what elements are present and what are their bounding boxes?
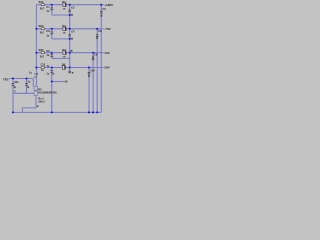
x mark C9 [92,56,94,58]
x mark C10 [88,75,90,77]
resistor R2A [41,28,44,30]
diode D3 [63,51,66,54]
wire ground column x52 row4 to bus [51,68,53,113]
svg-text:1N: 1N [63,56,66,58]
svg-text:15V: 15V [104,51,109,55]
capacitor C7 row1 x52 [50,8,53,11]
wire input cap leg x26.5 [26,79,28,94]
node row5 [51,81,53,83]
wire ground bus bottom [13,111,101,113]
wire transformer return jog [22,95,36,112]
capacitor C5 ladder row1 [68,10,71,13]
x mark transformer return node [37,106,39,108]
wire input rail y93.3 [13,92,34,94]
svg-text:1u: 1u [46,65,49,68]
node row2 ladder [69,28,71,30]
wire transformer primary row [9,79,33,87]
x mark rail1 end [71,14,73,16]
node bus left [12,111,14,113]
wire right line 4 from 20V node [88,68,90,113]
node bus c10 [88,111,90,113]
svg-text:1u: 1u [46,54,49,57]
capacitor CIN1 x13 [12,83,15,86]
svg-text:R1A: R1A [39,1,44,4]
svg-text:C7: C7 [46,6,50,9]
svg-text:x: x [14,90,16,93]
node row4 ladder [69,67,71,69]
node bus c9 [92,111,94,113]
node row4 bus [35,67,37,69]
node row4 cap [51,67,53,69]
node tr cap1 [12,78,14,80]
svg-text:C13: C13 [41,64,46,67]
wire left input bus vertical [35,5,37,87]
transformer TR1 winding boxes [34,86,38,95]
node tr cap2 [26,78,28,80]
svg-text:1u: 1u [46,10,49,13]
capacitor C4 ladder row2 [68,34,71,36]
wire cap leg row3 x52 [51,53,53,59]
node bus c8 [96,111,98,113]
node row2 bus [35,28,37,30]
capacitor C9 row3 x52 [50,54,53,57]
node row3 ladder [69,52,71,54]
wire row2 horizontal rail [36,28,103,30]
capacitor C12 row4 x52 [50,70,53,73]
svg-text:1u: 1u [41,69,44,72]
x mark rail3 end [71,50,73,52]
wire input cap leg x13 [12,79,14,94]
wire right line 2 from -75V node [96,29,98,113]
node row3 bus [35,52,37,54]
x mark row5 stub end [65,81,67,83]
node row3 right [92,52,94,54]
svg-text:1N: 1N [63,8,66,10]
capacitor CIN2 x26.5 [25,83,28,86]
svg-text:C6: C6 [102,8,106,11]
x mark ladder row4 [72,72,74,74]
svg-text:R5: R5 [38,88,42,91]
svg-text:C10: C10 [90,69,95,72]
diode D1 [63,3,66,6]
wire row1 horizontal rail [36,4,103,6]
svg-text:R2A: R2A [39,25,44,28]
wire row3 horizontal rail [36,52,103,54]
capacitor C8b on -75V line [96,34,99,36]
series component C13 row4 [41,67,44,69]
node row2 right [96,28,98,30]
node rail1 ladder [69,14,71,16]
node bus ground [51,111,53,113]
diode D4 [62,66,65,69]
capacitor C10 on 20V line [88,72,91,74]
wire rail3 bottom of caps row3 [52,57,70,59]
svg-text:BA158/MURS160: BA158/MURS160 [38,91,57,94]
junction dots [12,4,102,114]
svg-text:C14: C14 [34,73,39,76]
wire row4 horizontal rail [36,67,103,69]
node row1 right [100,4,102,6]
x mark rail2 end [71,38,73,40]
capacitor C8 row2 x52 [50,32,53,35]
resistor R3A [41,52,44,54]
node row2 cap [51,28,53,30]
svg-text:10k 3: 10k 3 [38,101,45,104]
svg-text:C5: C5 [71,7,75,10]
svg-text:1u: 1u [46,34,49,37]
svg-text:1N: 1N [63,32,66,34]
node row1 ladder [69,4,71,6]
label C6 value [101,15,103,17]
capacitor C9b on 15V line [92,58,95,60]
svg-text:+180V: +180V [104,3,113,7]
wire right line 3 from 15V node [92,53,94,113]
x mark C8 [96,37,98,39]
node row1 cap [51,4,53,6]
svg-text:-75V: -75V [104,27,110,31]
wire rail1 bottom of caps row1 [52,14,70,16]
resistor R1A [41,4,44,6]
x mark CIN1 [14,86,16,88]
wire ladder vertical x70 [69,5,71,73]
svg-text:1u: 1u [46,72,49,75]
wire x13 down to bus [12,93,14,112]
svg-text:C8: C8 [46,30,50,33]
svg-text:2k7: 2k7 [40,32,45,35]
svg-text:20V: 20V [104,66,109,70]
svg-text:TR1-: TR1- [3,77,9,81]
wire cap leg row2 x52 [51,29,53,39]
svg-text:C4: C4 [71,31,75,34]
svg-text:3u: 3u [28,81,31,84]
svg-text:33u: 33u [14,81,19,84]
x mark below C12 [53,73,55,75]
node row3 cap [51,52,53,54]
svg-text:2k7: 2k7 [40,7,45,10]
svg-text:R3A: R3A [39,49,44,52]
diode D2 [63,27,66,30]
capacitor C6 on +180V line [100,11,103,14]
x mark CIN2 [27,86,29,88]
svg-text:2k7: 2k7 [40,55,45,58]
wire cap leg row1 x52 [51,5,53,15]
node row4 right [88,67,90,69]
svg-text:1u: 1u [29,72,32,75]
wire right line 1 from +180V node [100,5,102,113]
capacitor ladder row4 stub [68,71,71,73]
wire row5 stub [52,81,65,83]
node rail2 ladder [69,38,71,40]
wire rail2 bottom of caps row2 [52,38,70,40]
